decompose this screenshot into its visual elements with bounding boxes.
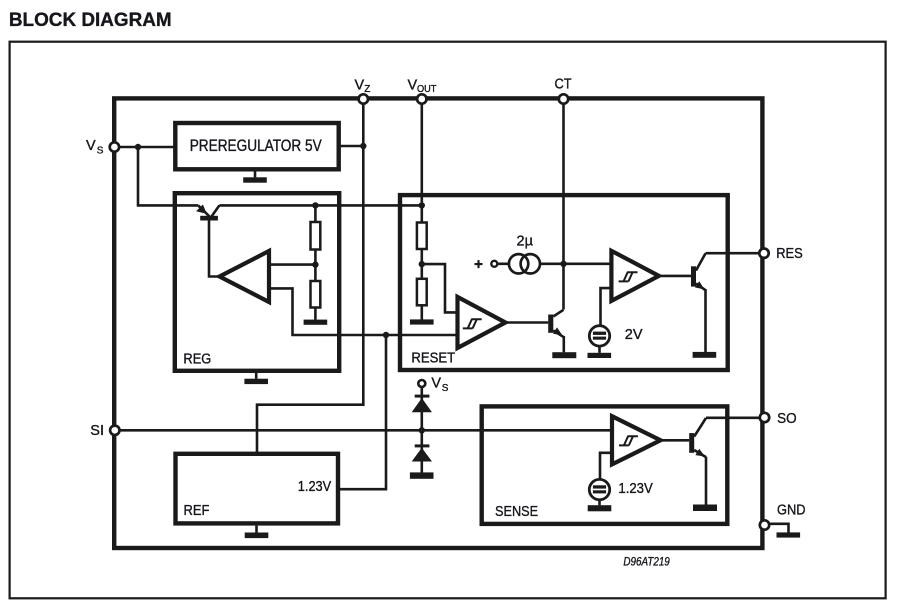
transistor Q1 (PNP pass device in REG) — [196, 205, 219, 221]
wire comparator B low input to 2V reference — [601, 288, 612, 326]
current source 2u with plus terminal — [475, 254, 541, 273]
ground (below REF block) — [245, 526, 269, 539]
svg-text:V: V — [431, 376, 441, 392]
svg-text:2µ: 2µ — [517, 234, 534, 250]
ground (2V reference) — [588, 346, 612, 358]
ground (RESET divider) — [410, 319, 434, 324]
wire Q3 collector to RES pin — [706, 252, 765, 255]
wire REG divider bottom to ground — [314, 308, 317, 320]
ground (GND pin external) — [769, 524, 800, 538]
node junction current source on CT line — [560, 261, 566, 267]
wire SI pin across to SENSE comparator input — [115, 429, 612, 432]
comparator B (RESET output schmitt) — [611, 251, 659, 301]
wire RESET divider bottom to ground — [420, 305, 423, 319]
wire REG divider middle connector — [314, 250, 317, 282]
block REF — [176, 454, 339, 524]
svg-text:BLOCK DIAGRAM: BLOCK DIAGRAM — [9, 10, 172, 31]
node junction RESET divider tap — [419, 261, 425, 267]
comparator C (SENSE schmitt) — [612, 416, 661, 464]
wire SENSE comparator low input to 1.23V reference — [600, 453, 612, 480]
svg-text:1.23V: 1.23V — [298, 479, 332, 495]
ground (Q2 emitter) — [552, 352, 576, 358]
node junction REF output on comparator input wire — [383, 332, 389, 338]
wire REF 1.23V output up to comparator node — [338, 335, 386, 489]
chip boundary box — [114, 98, 762, 548]
op-amp U1 (REG error amplifier, pointing left) — [220, 251, 270, 302]
wire Q4 collector to SO pin — [706, 416, 765, 419]
transistor Q4 (NPN, SO output) — [689, 418, 706, 457]
wire comparator B output to Q3 base — [659, 275, 691, 278]
node junction VOUT on RESET divider — [419, 202, 425, 208]
svg-text:SI: SI — [90, 423, 104, 439]
pin GND — [760, 520, 769, 529]
node junction REG divider tap — [312, 261, 318, 267]
wire SENSE comparator output to Q4 base — [661, 439, 690, 442]
comparator A (RESET lower threshold, schmitt) — [458, 297, 506, 348]
pin SI — [110, 426, 119, 435]
svg-text:SO: SO — [777, 411, 797, 427]
wire RESET divider R3 top connector — [420, 205, 423, 222]
svg-text:S: S — [442, 383, 449, 394]
resistor R3 (RESET divider top) — [417, 223, 427, 250]
pin CT — [559, 94, 568, 103]
diode D2 (VS clamp lower) — [412, 444, 432, 461]
svg-text:OUT: OUT — [417, 84, 436, 95]
node junction VS-preregulator branch — [135, 144, 141, 150]
node VS clamp terminal circle — [418, 380, 425, 387]
wire VOUT line down to RESET divider — [420, 99, 423, 205]
wire from VS node down and across REG to RESET divider (net VS internal) — [138, 147, 422, 205]
ground (below PREREGULATOR block) — [243, 171, 267, 182]
wire preregulator output to VZ line — [339, 145, 364, 148]
node junction diode chain on SI wire — [419, 427, 425, 433]
wire Q2 emitter down to ground — [562, 336, 565, 352]
resistor R4 (RESET divider bottom) — [417, 279, 427, 306]
svg-text:GND: GND — [777, 503, 806, 519]
wire VS pin to preregulator input — [114, 146, 175, 149]
wire protection diode chain vertical (net VS clamp) — [420, 388, 423, 473]
svg-text:S: S — [97, 146, 104, 157]
ground (Q4 emitter) — [693, 505, 717, 512]
diode D1 (VS clamp upper) — [412, 395, 432, 413]
svg-text:Z: Z — [364, 84, 370, 95]
svg-text:2V: 2V — [625, 327, 643, 343]
pin VOUT — [417, 94, 426, 103]
wire REG opamp second input down and across to RESET comparator low input — [269, 288, 458, 335]
block PREREGULATOR 5V — [175, 123, 338, 169]
pin RES — [759, 249, 768, 258]
wire VZ line down, staircase to REF block — [257, 99, 363, 454]
ground (diode chain) — [410, 472, 434, 478]
block REG — [175, 193, 339, 371]
ground (below REG block) — [244, 373, 268, 384]
wire Q3 emitter down to ground — [704, 289, 707, 352]
block SENSE — [482, 406, 728, 524]
node junction preregulator output on VZ line — [360, 143, 366, 149]
pin SO — [760, 413, 769, 422]
svg-text:V: V — [355, 78, 365, 94]
resistor R2 (REG divider bottom) — [311, 281, 321, 308]
wire RESET divider middle connector — [420, 249, 423, 279]
node junction REG divider top — [312, 202, 318, 208]
pin VS — [110, 142, 119, 151]
svg-text:PREREGULATOR 5V: PREREGULATOR 5V — [190, 137, 322, 155]
transistor Q3 (NPN, RES output) — [691, 253, 706, 290]
ground (REG divider) — [304, 320, 328, 325]
svg-text:REG: REG — [183, 352, 211, 368]
pin VZ — [359, 94, 368, 103]
svg-text:V: V — [408, 78, 418, 94]
resistor R1 (REG divider top) — [311, 222, 321, 250]
voltage reference 2V source symbol — [589, 326, 609, 346]
wire CT line down to current source node and Q2 collector — [562, 99, 565, 310]
wire REG divider top connector — [314, 205, 317, 222]
svg-text:SENSE: SENSE — [495, 504, 538, 520]
svg-text:REF: REF — [184, 503, 210, 519]
ground (Q3 emitter) — [693, 352, 717, 358]
svg-text:RESET: RESET — [411, 351, 455, 367]
voltage reference 1.23V source symbol (SENSE) — [589, 479, 609, 499]
block RESET — [400, 195, 728, 370]
wire REG opamp inverting input from divider tap — [269, 263, 315, 266]
svg-text:V: V — [86, 138, 96, 154]
wire RESET divider tap to comparator high input — [422, 264, 458, 312]
ground (1.23V reference) — [588, 500, 612, 512]
wire comparator A output to Q2 base — [505, 321, 548, 324]
wire Q1 collector to REG opamp apex — [209, 221, 220, 277]
transistor Q2 (NPN, RESET delay discharge) — [548, 310, 564, 337]
svg-text:CT: CT — [555, 77, 572, 93]
svg-text:RES: RES — [776, 246, 803, 262]
wire current source to CT node and comparator B high input — [498, 262, 612, 265]
svg-text:D96AT219: D96AT219 — [623, 555, 670, 568]
svg-text:1.23V: 1.23V — [618, 481, 653, 497]
wire Q4 emitter down to ground — [705, 457, 708, 505]
